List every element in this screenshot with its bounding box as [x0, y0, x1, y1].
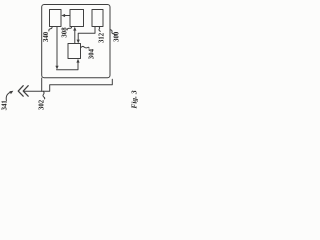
lead squiggle to label 304 [81, 46, 90, 48]
lead squiggle to label 340 [49, 27, 52, 32]
block 312 [92, 10, 103, 27]
arrow 308 to 340 [63, 15, 70, 17]
wire from 340 down (arrowhead down at junction) [56, 27, 58, 67]
curved pointer arrow 341 [6, 92, 10, 101]
signal wire from chevrons to box 300 [24, 79, 112, 91]
svg-text:340: 340 [43, 31, 50, 42]
svg-text:312: 312 [98, 32, 105, 43]
signal input chevron arrowheads [18, 86, 23, 97]
lead squiggle to label 302 [43, 91, 45, 99]
lead squiggle to label 308 [67, 27, 71, 31]
wire junction to bottom of 304 (arrowhead up) [57, 61, 79, 70]
wire tap from box corner down to signal wire [41, 78, 43, 91]
lead squiggle to label 312 [99, 27, 101, 32]
svg-text:300: 300 [113, 31, 120, 42]
lead squiggle to label 300 [110, 30, 115, 36]
svg-text:304: 304 [89, 48, 96, 59]
outer box 300 (device enclosure) [42, 5, 110, 78]
svg-text:308: 308 [62, 27, 69, 38]
block 308 [70, 10, 84, 27]
arrow 304 to 308 [74, 29, 76, 44]
wire 312 down-left into 304 [78, 27, 95, 42]
block 304 [68, 44, 81, 59]
block 340 [50, 10, 62, 27]
svg-text:341: 341 [2, 100, 9, 111]
svg-text:302: 302 [39, 99, 46, 110]
svg-text:Fig. 3: Fig. 3 [130, 90, 139, 109]
